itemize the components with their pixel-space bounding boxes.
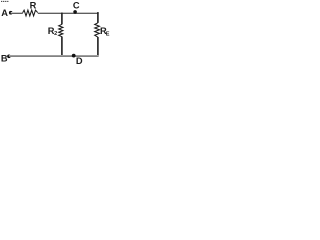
svg-text:2: 2 <box>54 31 57 37</box>
svg-text:E: E <box>106 32 110 38</box>
node A junction dot <box>9 11 13 15</box>
node B junction dot <box>7 55 11 59</box>
dashed border fragment <box>1 0 8 2</box>
wire top right corner down <box>97 12 99 23</box>
wire bottom of right branch <box>97 37 99 56</box>
wire A to resistor R <box>11 12 23 14</box>
wire top of middle branch <box>61 13 63 25</box>
svg-text:B: B <box>1 54 8 64</box>
resistor R2 (vertical zigzag) <box>59 24 63 36</box>
node C junction dot <box>73 10 77 14</box>
svg-text:D: D <box>76 56 83 66</box>
svg-text:A: A <box>1 8 8 18</box>
wire bottom of middle branch <box>61 37 63 57</box>
svg-text:R: R <box>30 1 37 11</box>
resistor R (horizontal zigzag) <box>23 10 38 16</box>
node D junction dot <box>72 54 76 58</box>
svg-text:C: C <box>73 1 80 11</box>
wire resistor R to corner <box>38 12 99 14</box>
bottom wire B to right branch <box>9 55 99 57</box>
resistor RE (vertical zigzag) <box>95 23 100 37</box>
